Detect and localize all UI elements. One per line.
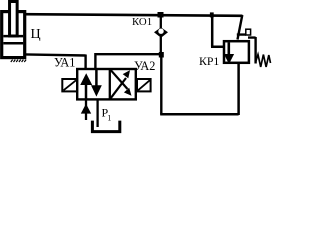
svg-text:Ц: Ц <box>31 27 41 42</box>
svg-text:КР1: КР1 <box>199 54 219 68</box>
svg-text:КО1: КО1 <box>132 16 152 28</box>
svg-text:УА1: УА1 <box>54 56 75 70</box>
svg-text:УА2: УА2 <box>134 59 155 73</box>
